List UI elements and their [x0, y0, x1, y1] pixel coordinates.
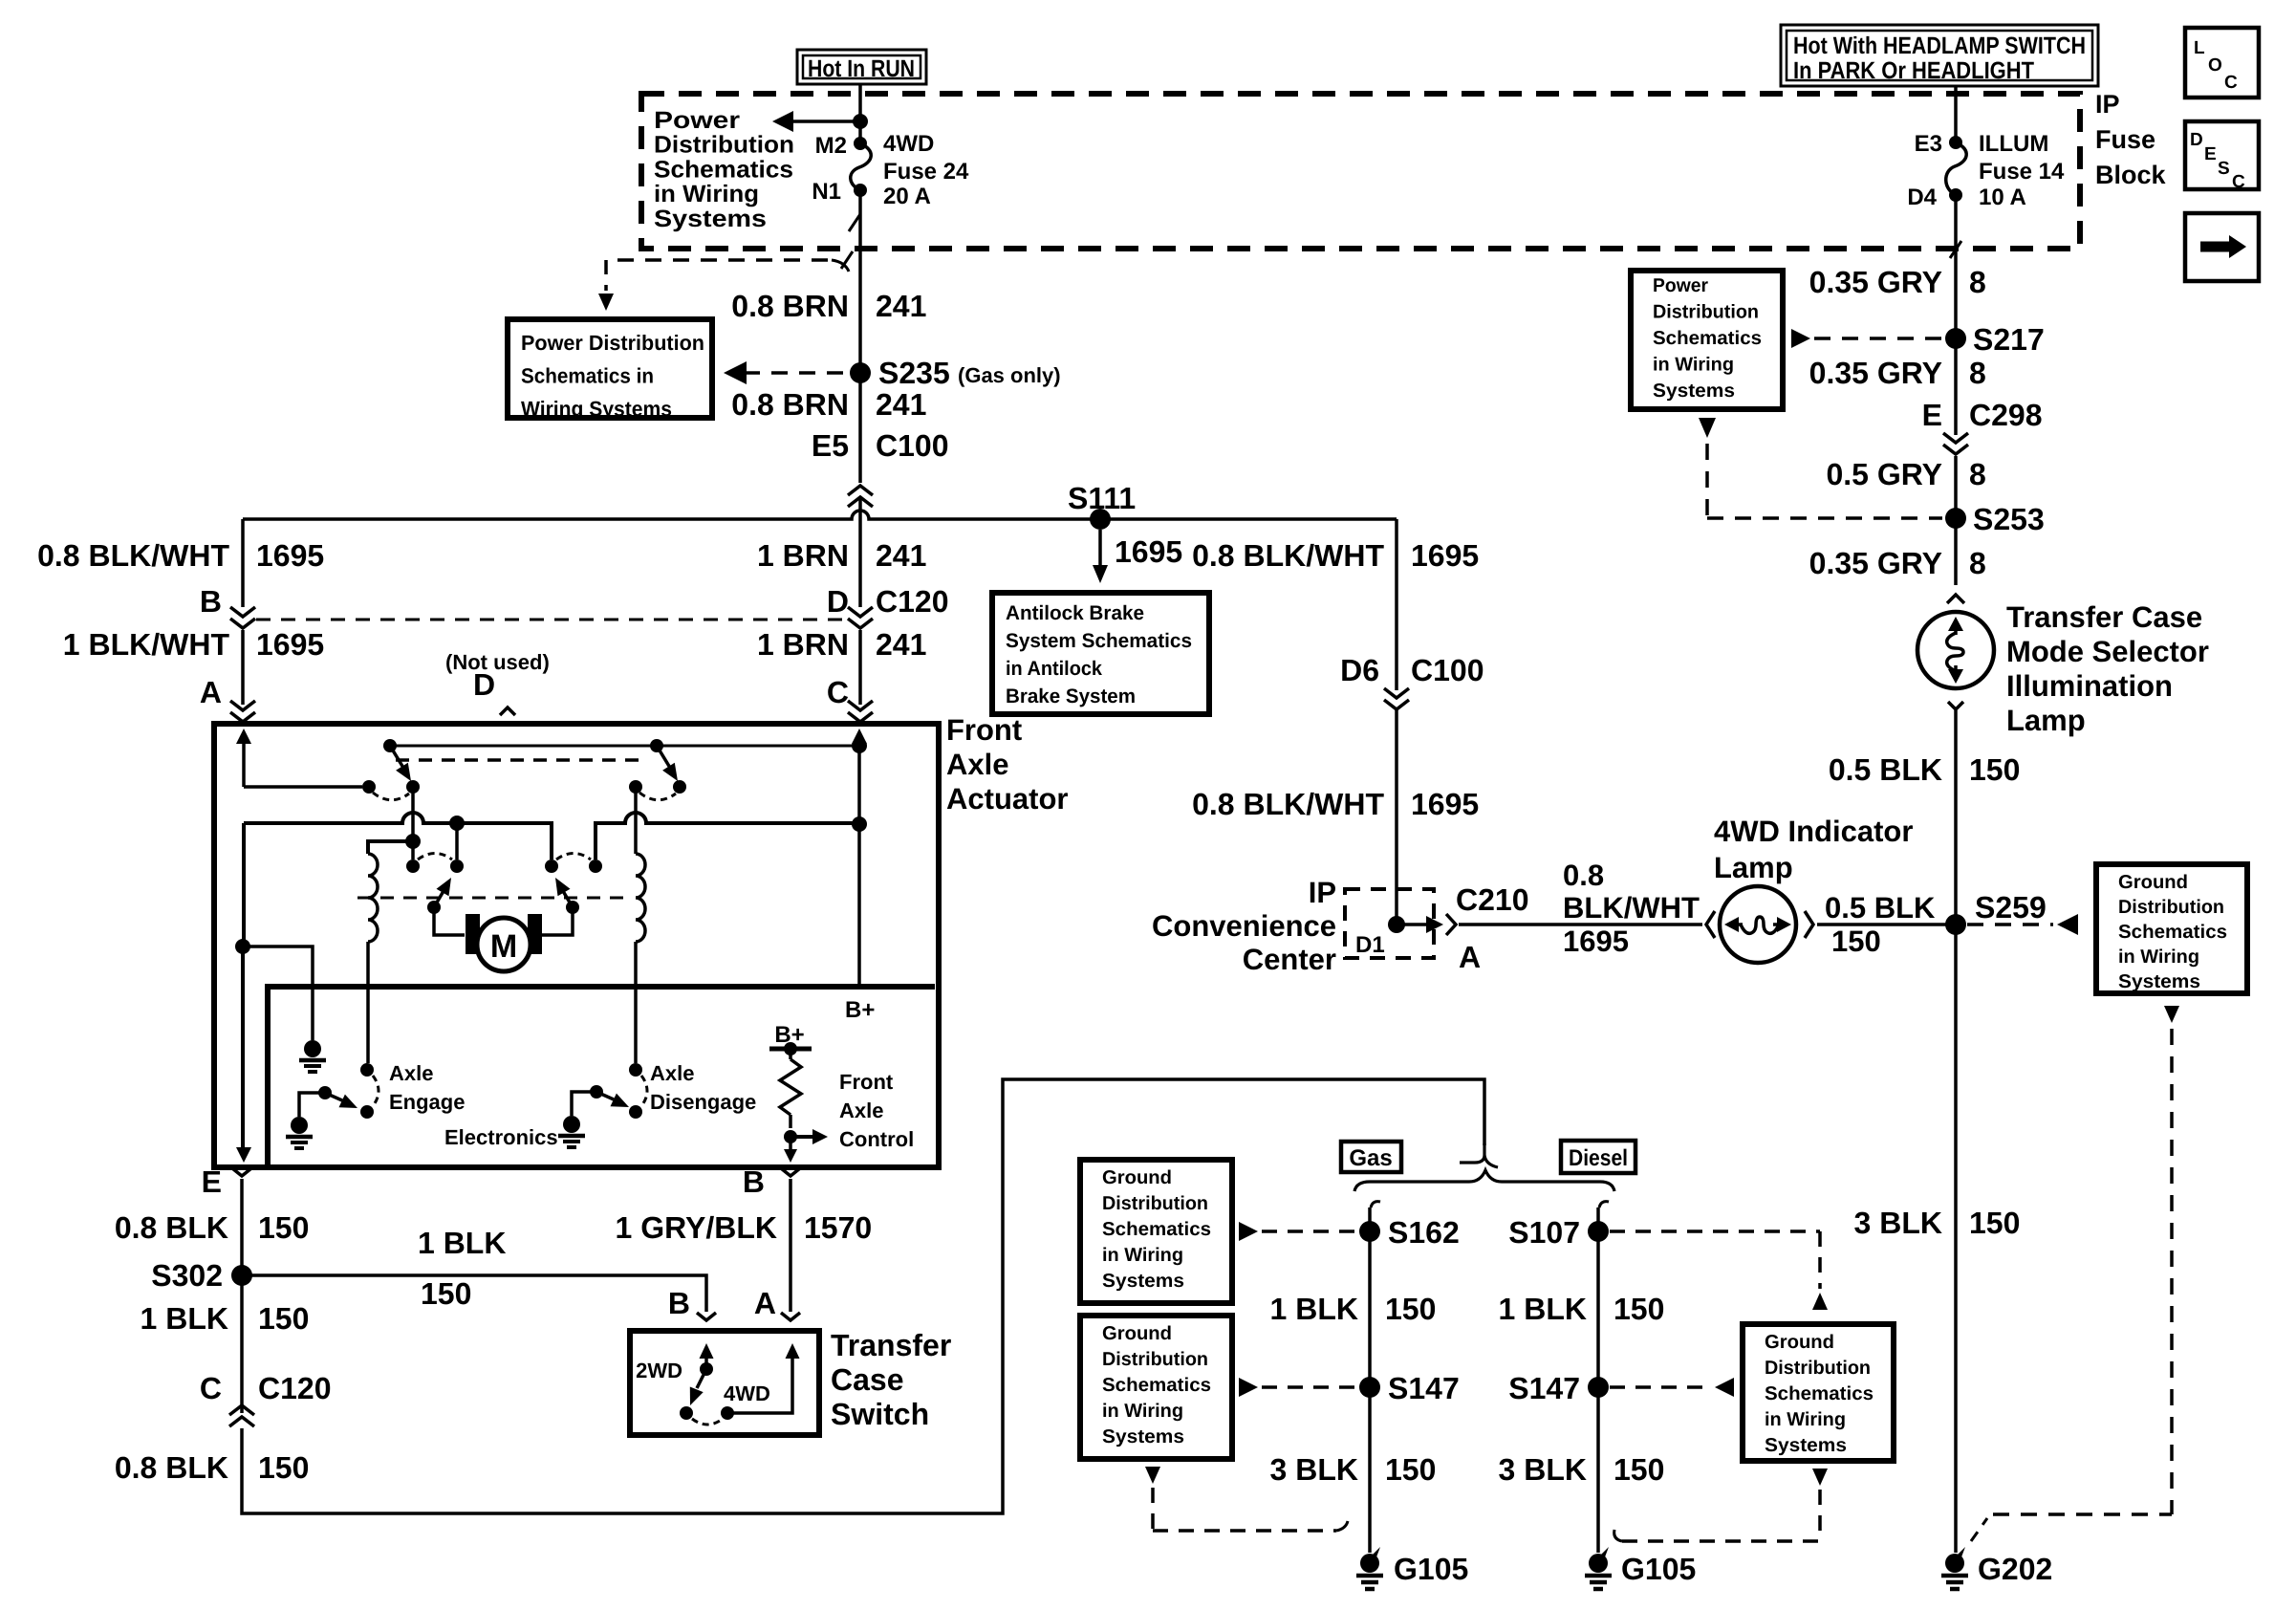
upper right contacts and arc: [629, 780, 686, 800]
svg-text:Mode Selector: Mode Selector: [2006, 635, 2209, 668]
svg-text:150: 150: [258, 1301, 309, 1336]
wire from Hot In RUN to fuse terminal M2: [858, 84, 862, 143]
junction dot center: [405, 834, 421, 849]
wire C298 to S253: [1954, 456, 1958, 518]
wire C100 D6 down to IP convenience center: [1395, 709, 1398, 925]
svg-text:Schematics in: Schematics in: [521, 364, 654, 388]
svg-text:0.5 GRY: 0.5 GRY: [1826, 457, 1942, 491]
svg-text:0.8 BRN: 0.8 BRN: [731, 387, 849, 422]
svg-text:0.8 BLK/WHT: 0.8 BLK/WHT: [1192, 787, 1384, 821]
svg-text:in Wiring: in Wiring: [1102, 1245, 1183, 1266]
ground G202: [1941, 1547, 2052, 1589]
svg-text:Power: Power: [1653, 275, 1708, 296]
fuse F24 4WD Fuse 24 element: [851, 143, 871, 190]
svg-text:1 BLK/WHT: 1 BLK/WHT: [63, 627, 230, 662]
svg-text:(Gas only): (Gas only): [958, 363, 1061, 387]
label pin C of actuator: [827, 675, 849, 709]
legend box arrow: [2185, 213, 2259, 281]
label wire 0.8 BLK 150 (E): [115, 1210, 310, 1245]
box-exit slash marks on wire 241: [841, 214, 860, 269]
svg-text:Distribution: Distribution: [1765, 1358, 1871, 1379]
svg-text:C: C: [200, 1371, 222, 1405]
fuse F24 terminal M2: [815, 133, 867, 159]
label wire 1 BLK 150 (left): [141, 1301, 310, 1336]
motor M: [466, 914, 542, 971]
connector pin D (not used) symbol: [500, 707, 515, 715]
svg-text:E: E: [2204, 144, 2217, 164]
dashed reference right ground box to diesel G105: [1614, 1469, 1828, 1541]
svg-text:1695: 1695: [1563, 925, 1629, 958]
svg-text:Schematics: Schematics: [1765, 1383, 1874, 1404]
svg-text:Center: Center: [1243, 943, 1336, 976]
svg-text:O: O: [2208, 55, 2222, 76]
splice S217: [1945, 322, 2045, 357]
splice S235: [850, 356, 1061, 390]
mechanical linkage dashed (upper): [396, 758, 648, 762]
svg-text:0.35 GRY: 0.35 GRY: [1809, 546, 1942, 580]
wire S302 to transfer case switch pin B: [242, 1275, 706, 1312]
svg-text:M: M: [490, 928, 517, 965]
wire pivot to motor (left): [434, 907, 465, 935]
fuse F14 ILLUM Fuse 14 element: [1946, 142, 1966, 195]
svg-text:Front: Front: [946, 713, 1022, 747]
svg-text:Diesel: Diesel: [1569, 1145, 1628, 1171]
svg-text:Lamp: Lamp: [1714, 851, 1793, 884]
wire pin A entry (arrow up): [236, 729, 362, 787]
wire 1695 to 4WD indicator lamp: [1459, 923, 1702, 926]
svg-text:150: 150: [1385, 1452, 1436, 1487]
svg-text:IP: IP: [1309, 876, 1336, 909]
label "Transfer Case Mode Selector Illumination Lamp": [2006, 600, 2209, 737]
label terminal D1: [1355, 932, 1385, 958]
internal ground (axle engage): [286, 1117, 313, 1148]
dashed reference S147 diesel to right ground box: [1610, 1378, 1734, 1397]
left solenoid coil winding: [368, 854, 378, 1063]
svg-text:0.8 BLK: 0.8 BLK: [115, 1210, 228, 1245]
upper left moving contact dot: [406, 780, 420, 794]
svg-text:Lamp: Lamp: [2006, 704, 2086, 737]
svg-text:A: A: [1459, 940, 1481, 974]
label "Electronics": [444, 1125, 558, 1149]
svg-text:S107: S107: [1508, 1215, 1580, 1250]
dashed reference from power box to S217: [1791, 329, 1942, 348]
wire pin E to S302: [240, 1179, 244, 1275]
svg-text:D: D: [2190, 130, 2203, 150]
label connector C100 pin D6: [1340, 653, 1484, 687]
label "4WD": [724, 1382, 770, 1405]
transfer case mode selector illumination lamp: [1917, 595, 1994, 723]
reference box "Ground Distribution Schematics in Wiring Systems" (upper left): [1080, 1160, 1232, 1303]
label wire 3 BLK 150 (right): [1854, 1206, 2021, 1240]
axle engage dashed contact arc: [373, 1076, 379, 1106]
svg-text:N1: N1: [812, 179, 841, 205]
svg-text:0.5 BLK: 0.5 BLK: [1825, 891, 1936, 925]
label B+ (battery rail): [845, 997, 875, 1023]
svg-text:1 BLK: 1 BLK: [418, 1226, 506, 1260]
dashed reference lower ground box to G105: [1145, 1467, 1348, 1531]
connector C120 pin B symbol: [230, 607, 255, 628]
connector C120 pin C symbol: [229, 1405, 254, 1426]
label pin B of actuator: [743, 1164, 765, 1199]
wire C120 to bottom bus: [242, 1079, 1484, 1513]
svg-text:S162: S162: [1388, 1215, 1460, 1250]
label wire 1 BLK 150 (diesel): [1499, 1292, 1665, 1326]
wire center switch to junction: [411, 787, 415, 841]
wire S253 to illumination lamp: [1954, 518, 1958, 585]
brace joining gas and diesel branches: [1354, 1170, 1614, 1191]
label "4WD Fuse 24 20 A": [883, 131, 969, 209]
axle disengage pivot wire to ground: [572, 1092, 596, 1116]
svg-text:Distribution: Distribution: [1102, 1193, 1208, 1214]
fuse F14 terminal D4: [1907, 185, 1962, 210]
lower left switch arm: [427, 878, 451, 914]
upper right switch arm: [657, 746, 678, 781]
label pin D of C120: [827, 584, 949, 619]
label wire 3 BLK 150 (diesel): [1499, 1452, 1665, 1487]
reference box "Ground Distribution Schematics in Wiring Systems" (lower left): [1080, 1316, 1232, 1459]
svg-text:L: L: [2194, 38, 2205, 58]
lower left stationary contact: [450, 859, 464, 873]
transfer case switch arm: [690, 1369, 706, 1405]
svg-text:in Wiring: in Wiring: [1653, 355, 1734, 376]
label wire 0.5 BLK 150: [1829, 752, 2021, 787]
svg-text:C: C: [2232, 172, 2245, 192]
internal rail (E side) with hop: [244, 813, 552, 859]
connector C210 pin A symbol: [1426, 914, 1456, 935]
wire rail to lower contact: [455, 823, 459, 859]
svg-text:In PARK Or HEADLIGHT: In PARK Or HEADLIGHT: [1793, 57, 2034, 84]
axle engage switch arm: [318, 1086, 357, 1108]
svg-text:M2: M2: [815, 133, 847, 159]
svg-text:8: 8: [1969, 546, 1986, 580]
internal ground (E branch): [299, 1040, 326, 1072]
label B+ (resistor): [774, 1022, 804, 1048]
wire C120 pin A to front axle actuator: [241, 630, 245, 705]
svg-text:Systems: Systems: [1102, 1426, 1184, 1447]
svg-text:IP: IP: [2095, 90, 2120, 119]
wire actuator pin B to transfer case switch pin A: [781, 1168, 800, 1312]
connector C100 pin E5 symbol: [848, 486, 873, 507]
svg-text:Ground: Ground: [2118, 872, 2188, 893]
svg-text:Front: Front: [839, 1070, 894, 1094]
svg-text:150: 150: [1385, 1292, 1436, 1326]
svg-text:0.5 BLK: 0.5 BLK: [1829, 752, 1942, 787]
svg-text:D: D: [473, 667, 495, 702]
svg-text:Axle: Axle: [839, 1099, 883, 1122]
label "2WD": [636, 1359, 682, 1382]
svg-text:0.8: 0.8: [1563, 859, 1604, 892]
svg-text:Brake System: Brake System: [1006, 685, 1136, 707]
svg-text:Illumination: Illumination: [2006, 669, 2173, 703]
svg-text:0.8 BLK: 0.8 BLK: [115, 1450, 228, 1485]
fuse F24 terminal N1: [812, 179, 867, 205]
svg-text:Hot With HEADLAMP SWITCH: Hot With HEADLAMP SWITCH: [1793, 33, 2086, 59]
svg-text:8: 8: [1969, 457, 1986, 491]
front axle actuator inner electronics box: [268, 987, 935, 1164]
svg-text:Transfer: Transfer: [831, 1328, 951, 1362]
transfer case switch 4WD contact wire: [727, 1343, 800, 1413]
svg-text:Distribution: Distribution: [1102, 1349, 1208, 1370]
svg-text:B+: B+: [845, 997, 875, 1023]
contact dot A-side stationary: [362, 780, 376, 794]
switch pivot dot (upper left): [383, 739, 397, 752]
svg-text:C210: C210: [1456, 882, 1529, 917]
svg-text:Disengage: Disengage: [650, 1090, 756, 1114]
svg-text:in Wiring: in Wiring: [654, 181, 759, 207]
svg-text:Case: Case: [831, 1362, 904, 1397]
wire convenience center to connector C210: [1397, 923, 1428, 926]
connector transfer switch pin B symbol: [697, 1313, 716, 1320]
svg-text:3 BLK: 3 BLK: [1270, 1452, 1358, 1487]
wire pin C entry (arrow up): [852, 729, 867, 987]
svg-text:Transfer Case: Transfer Case: [2006, 600, 2202, 634]
transfer case switch contacts and arc: [680, 1406, 734, 1425]
svg-text:3 BLK: 3 BLK: [1499, 1452, 1587, 1487]
svg-text:S302: S302: [151, 1258, 223, 1293]
svg-text:B: B: [200, 584, 222, 619]
reference box "Ground Distribution Schematics in Wiring Systems" (right): [2096, 864, 2247, 993]
wire connector C100 to junction: [858, 499, 862, 607]
svg-text:Hot In RUN: Hot In RUN: [808, 55, 915, 82]
lower left moving contact: [406, 841, 420, 873]
svg-text:in Wiring: in Wiring: [1765, 1409, 1846, 1430]
svg-text:S253: S253: [1973, 502, 2045, 536]
wire bus corner down to connector C100 pin D6: [1395, 519, 1398, 690]
dashed contact arc lower left: [418, 854, 452, 860]
svg-text:C: C: [2224, 73, 2238, 93]
axle engage switch lower contact: [360, 1105, 374, 1119]
dashed reference from right ground box toward G202: [1971, 1006, 2179, 1541]
svg-text:Systems: Systems: [1765, 1435, 1847, 1456]
gas branch squiggle top: [1371, 1202, 1380, 1207]
lower right contacts and arc: [545, 854, 602, 874]
svg-text:1 BRN: 1 BRN: [757, 538, 849, 573]
svg-text:G105: G105: [1621, 1552, 1696, 1586]
svg-text:1695: 1695: [256, 538, 324, 573]
axle disengage switch arm: [590, 1085, 629, 1107]
svg-text:S147: S147: [1508, 1371, 1580, 1405]
dashed reference S259 to ground distribution: [1967, 914, 2078, 935]
label "Power Distribution Schematics in Wiring Systems" (fuse block ref): [654, 107, 794, 232]
axle disengage contacts and arc: [629, 1063, 647, 1119]
diesel branch squiggle top: [1599, 1202, 1609, 1207]
wire gas branch to G105: [1368, 1207, 1372, 1553]
svg-text:S: S: [2218, 159, 2230, 179]
svg-text:S111: S111: [1068, 481, 1136, 515]
connector C100 pin E5 labels: [812, 428, 949, 463]
mechanical linkage dashed (lower): [357, 897, 623, 900]
squiggle joint at bus to brace: [1460, 1143, 1498, 1167]
svg-text:BLK/WHT: BLK/WHT: [1563, 891, 1700, 925]
svg-text:Schematics: Schematics: [2118, 922, 2227, 943]
svg-text:Schematics: Schematics: [654, 156, 793, 183]
svg-text:E5: E5: [812, 428, 849, 463]
internal rail (C side) with hop: [596, 813, 859, 859]
label wire 3 BLK 150 (gas): [1270, 1452, 1437, 1487]
legend box LOC: [2185, 28, 2259, 98]
label "IP Fuse Block": [2095, 90, 2167, 189]
svg-text:Distribution: Distribution: [1653, 302, 1759, 323]
svg-text:Axle: Axle: [650, 1061, 694, 1085]
wire fuse D4 down to S217: [1954, 195, 1958, 338]
svg-text:C120: C120: [876, 584, 949, 619]
label wire 1 BLK/WHT 1695: [63, 627, 324, 662]
svg-text:150: 150: [1614, 1292, 1664, 1326]
svg-text:241: 241: [876, 289, 926, 323]
wire junction to left coil: [368, 841, 413, 854]
IP Fuse Block dashed outline: [641, 94, 2080, 249]
wire E rail branch to internal ground: [235, 939, 313, 1040]
svg-text:4WD: 4WD: [883, 131, 934, 157]
svg-text:Systems: Systems: [1653, 381, 1735, 402]
rail to C wire junction dot: [852, 816, 867, 832]
label wire 1 BRN 241 (lower): [757, 627, 926, 662]
label pin B of C120: [200, 584, 222, 619]
splice S111: [1068, 481, 1136, 530]
svg-text:241: 241: [876, 538, 926, 573]
wire S235 to connector C100: [858, 373, 862, 483]
svg-text:1695: 1695: [1411, 787, 1479, 821]
label wire 1 GRY/BLK 1570: [616, 1210, 873, 1245]
svg-text:2WD: 2WD: [636, 1359, 682, 1382]
label wire 0.35 GRY 8 (upper): [1809, 265, 1986, 299]
label box "Diesel": [1561, 1141, 1635, 1173]
label pin A of actuator: [200, 675, 222, 709]
label "(Not used)" pin D: [445, 650, 550, 702]
svg-text:G202: G202: [1978, 1552, 2052, 1586]
label box "Hot In RUN": [797, 50, 926, 84]
right solenoid coil winding: [636, 787, 645, 1063]
branch arrow to other power distribution circuits: [772, 111, 868, 132]
label connector C298 pin E: [1922, 398, 2043, 432]
svg-text:10 A: 10 A: [1979, 185, 2026, 210]
svg-text:150: 150: [1969, 1206, 2020, 1240]
dashed reference upper ground box to S162: [1239, 1222, 1358, 1241]
svg-text:C120: C120: [258, 1371, 332, 1405]
svg-text:Schematics: Schematics: [1653, 328, 1762, 349]
svg-text:Schematics: Schematics: [1102, 1219, 1211, 1240]
svg-text:150: 150: [1614, 1452, 1664, 1487]
svg-text:D1: D1: [1355, 932, 1385, 958]
svg-text:Ground: Ground: [1765, 1332, 1834, 1353]
label "IP Convenience Center": [1152, 876, 1336, 976]
IP convenience center dashed box: [1345, 889, 1434, 958]
wire 1695 horizontal bus with hop over wire 241: [243, 511, 1397, 519]
svg-text:G105: G105: [1394, 1552, 1468, 1586]
svg-text:Fuse 24: Fuse 24: [883, 159, 969, 185]
svg-text:0.35 GRY: 0.35 GRY: [1809, 265, 1942, 299]
svg-text:C: C: [827, 675, 849, 709]
svg-text:8: 8: [1969, 265, 1986, 299]
ground G105 (diesel): [1585, 1547, 1696, 1589]
svg-text:1 BLK: 1 BLK: [1270, 1292, 1358, 1326]
wire S217 to connector C298: [1954, 338, 1958, 435]
svg-text:Fuse 14: Fuse 14: [1979, 159, 2065, 185]
svg-text:Block: Block: [2095, 161, 2167, 189]
svg-text:in Wiring: in Wiring: [2118, 946, 2199, 968]
svg-text:System Schematics: System Schematics: [1006, 630, 1192, 652]
top rail junction dot at C wire: [852, 738, 867, 753]
reference box "Ground Distribution Schematics in Wiring Systems" (bottom right): [1743, 1324, 1894, 1461]
svg-text:1 BRN: 1 BRN: [757, 627, 849, 662]
reference box "Power Distribution Schematics in Wiring Systems" (left): [508, 319, 712, 421]
svg-text:0.8 BLK/WHT: 0.8 BLK/WHT: [1192, 538, 1384, 573]
label wire 1 BLK 150 (gas): [1270, 1292, 1437, 1326]
upper left switch arm: [390, 746, 411, 781]
svg-text:A: A: [200, 675, 222, 709]
dashed reference arrow S235 to power distribution: [724, 361, 849, 384]
svg-text:D: D: [827, 584, 849, 619]
connector C100 pin D6 symbol: [1384, 688, 1409, 709]
wire motor to pivot (right): [542, 907, 573, 935]
dashed reference S107 to right ground box: [1610, 1231, 1828, 1310]
label wire 0.35 GRY 8 (second): [1809, 356, 1986, 390]
svg-text:Actuator: Actuator: [946, 782, 1068, 816]
svg-text:S235: S235: [878, 356, 950, 390]
wire fuse N1 down to S235: [858, 190, 862, 373]
svg-text:150: 150: [1969, 752, 2020, 787]
svg-text:Ground: Ground: [1102, 1167, 1172, 1188]
label "Transfer Case Switch": [831, 1328, 951, 1431]
label wire 0.8 BRN 241 (lower): [731, 387, 926, 422]
front axle control resistor: [769, 1042, 828, 1163]
svg-text:(Not used): (Not used): [445, 650, 550, 674]
junction dot inside convenience center: [1388, 916, 1405, 933]
label connector C120 pin C: [200, 1371, 332, 1405]
label wire 0.8 BLK/WHT 1695 (top): [1192, 538, 1479, 573]
wire E-rail corner down to ground branch: [242, 823, 246, 946]
splice S147 (gas): [1359, 1371, 1460, 1405]
connector C120 dashed link: [256, 619, 847, 621]
wire diesel branch to G105: [1596, 1207, 1600, 1553]
label connector C210 pin A: [1456, 882, 1529, 974]
svg-text:B: B: [668, 1286, 690, 1320]
splice S147 (diesel): [1508, 1371, 1609, 1405]
label box "Hot With HEADLAMP SWITCH In PARK Or HEADLIGHT": [1781, 25, 2098, 86]
svg-text:C298: C298: [1969, 398, 2043, 432]
label wire 0.8 BRN 241 (upper): [731, 289, 926, 323]
internal top rail: [390, 745, 859, 748]
label "ILLUM Fuse 14 10 A": [1979, 131, 2065, 210]
svg-text:1 BLK: 1 BLK: [1499, 1292, 1587, 1326]
svg-text:D4: D4: [1907, 185, 1937, 210]
svg-text:0.8 BLK/WHT: 0.8 BLK/WHT: [37, 538, 229, 573]
svg-text:E: E: [202, 1164, 222, 1199]
svg-text:3 BLK: 3 BLK: [1854, 1206, 1942, 1240]
svg-text:Antilock Brake: Antilock Brake: [1006, 602, 1144, 624]
label "Axle Engage": [389, 1061, 465, 1114]
label wire 0.8 BLK/WHT 1695 (left upper): [37, 538, 324, 573]
label "Axle Disengage": [650, 1061, 756, 1114]
svg-text:Electronics: Electronics: [444, 1125, 558, 1149]
svg-text:C100: C100: [876, 428, 949, 463]
svg-text:1 GRY/BLK: 1 GRY/BLK: [616, 1210, 778, 1245]
svg-text:Gas: Gas: [1349, 1145, 1392, 1171]
svg-text:150: 150: [421, 1276, 471, 1311]
label wire 1 BRN 241 (upper): [757, 538, 926, 573]
label "Front Axle Actuator": [946, 713, 1068, 816]
wire lamp to S259: [1817, 923, 1956, 926]
ground G105 (gas): [1356, 1547, 1468, 1589]
svg-text:Switch: Switch: [831, 1397, 929, 1431]
svg-text:E3: E3: [1915, 131, 1942, 157]
svg-text:4WD: 4WD: [724, 1382, 770, 1405]
svg-text:B: B: [743, 1164, 765, 1199]
connector pin C symbol: [848, 701, 873, 724]
reference box "Antilock Brake System Schematics in Antilock Brake System": [992, 593, 1209, 714]
svg-text:1695: 1695: [256, 627, 324, 662]
svg-text:Power Distribution: Power Distribution: [521, 331, 704, 355]
